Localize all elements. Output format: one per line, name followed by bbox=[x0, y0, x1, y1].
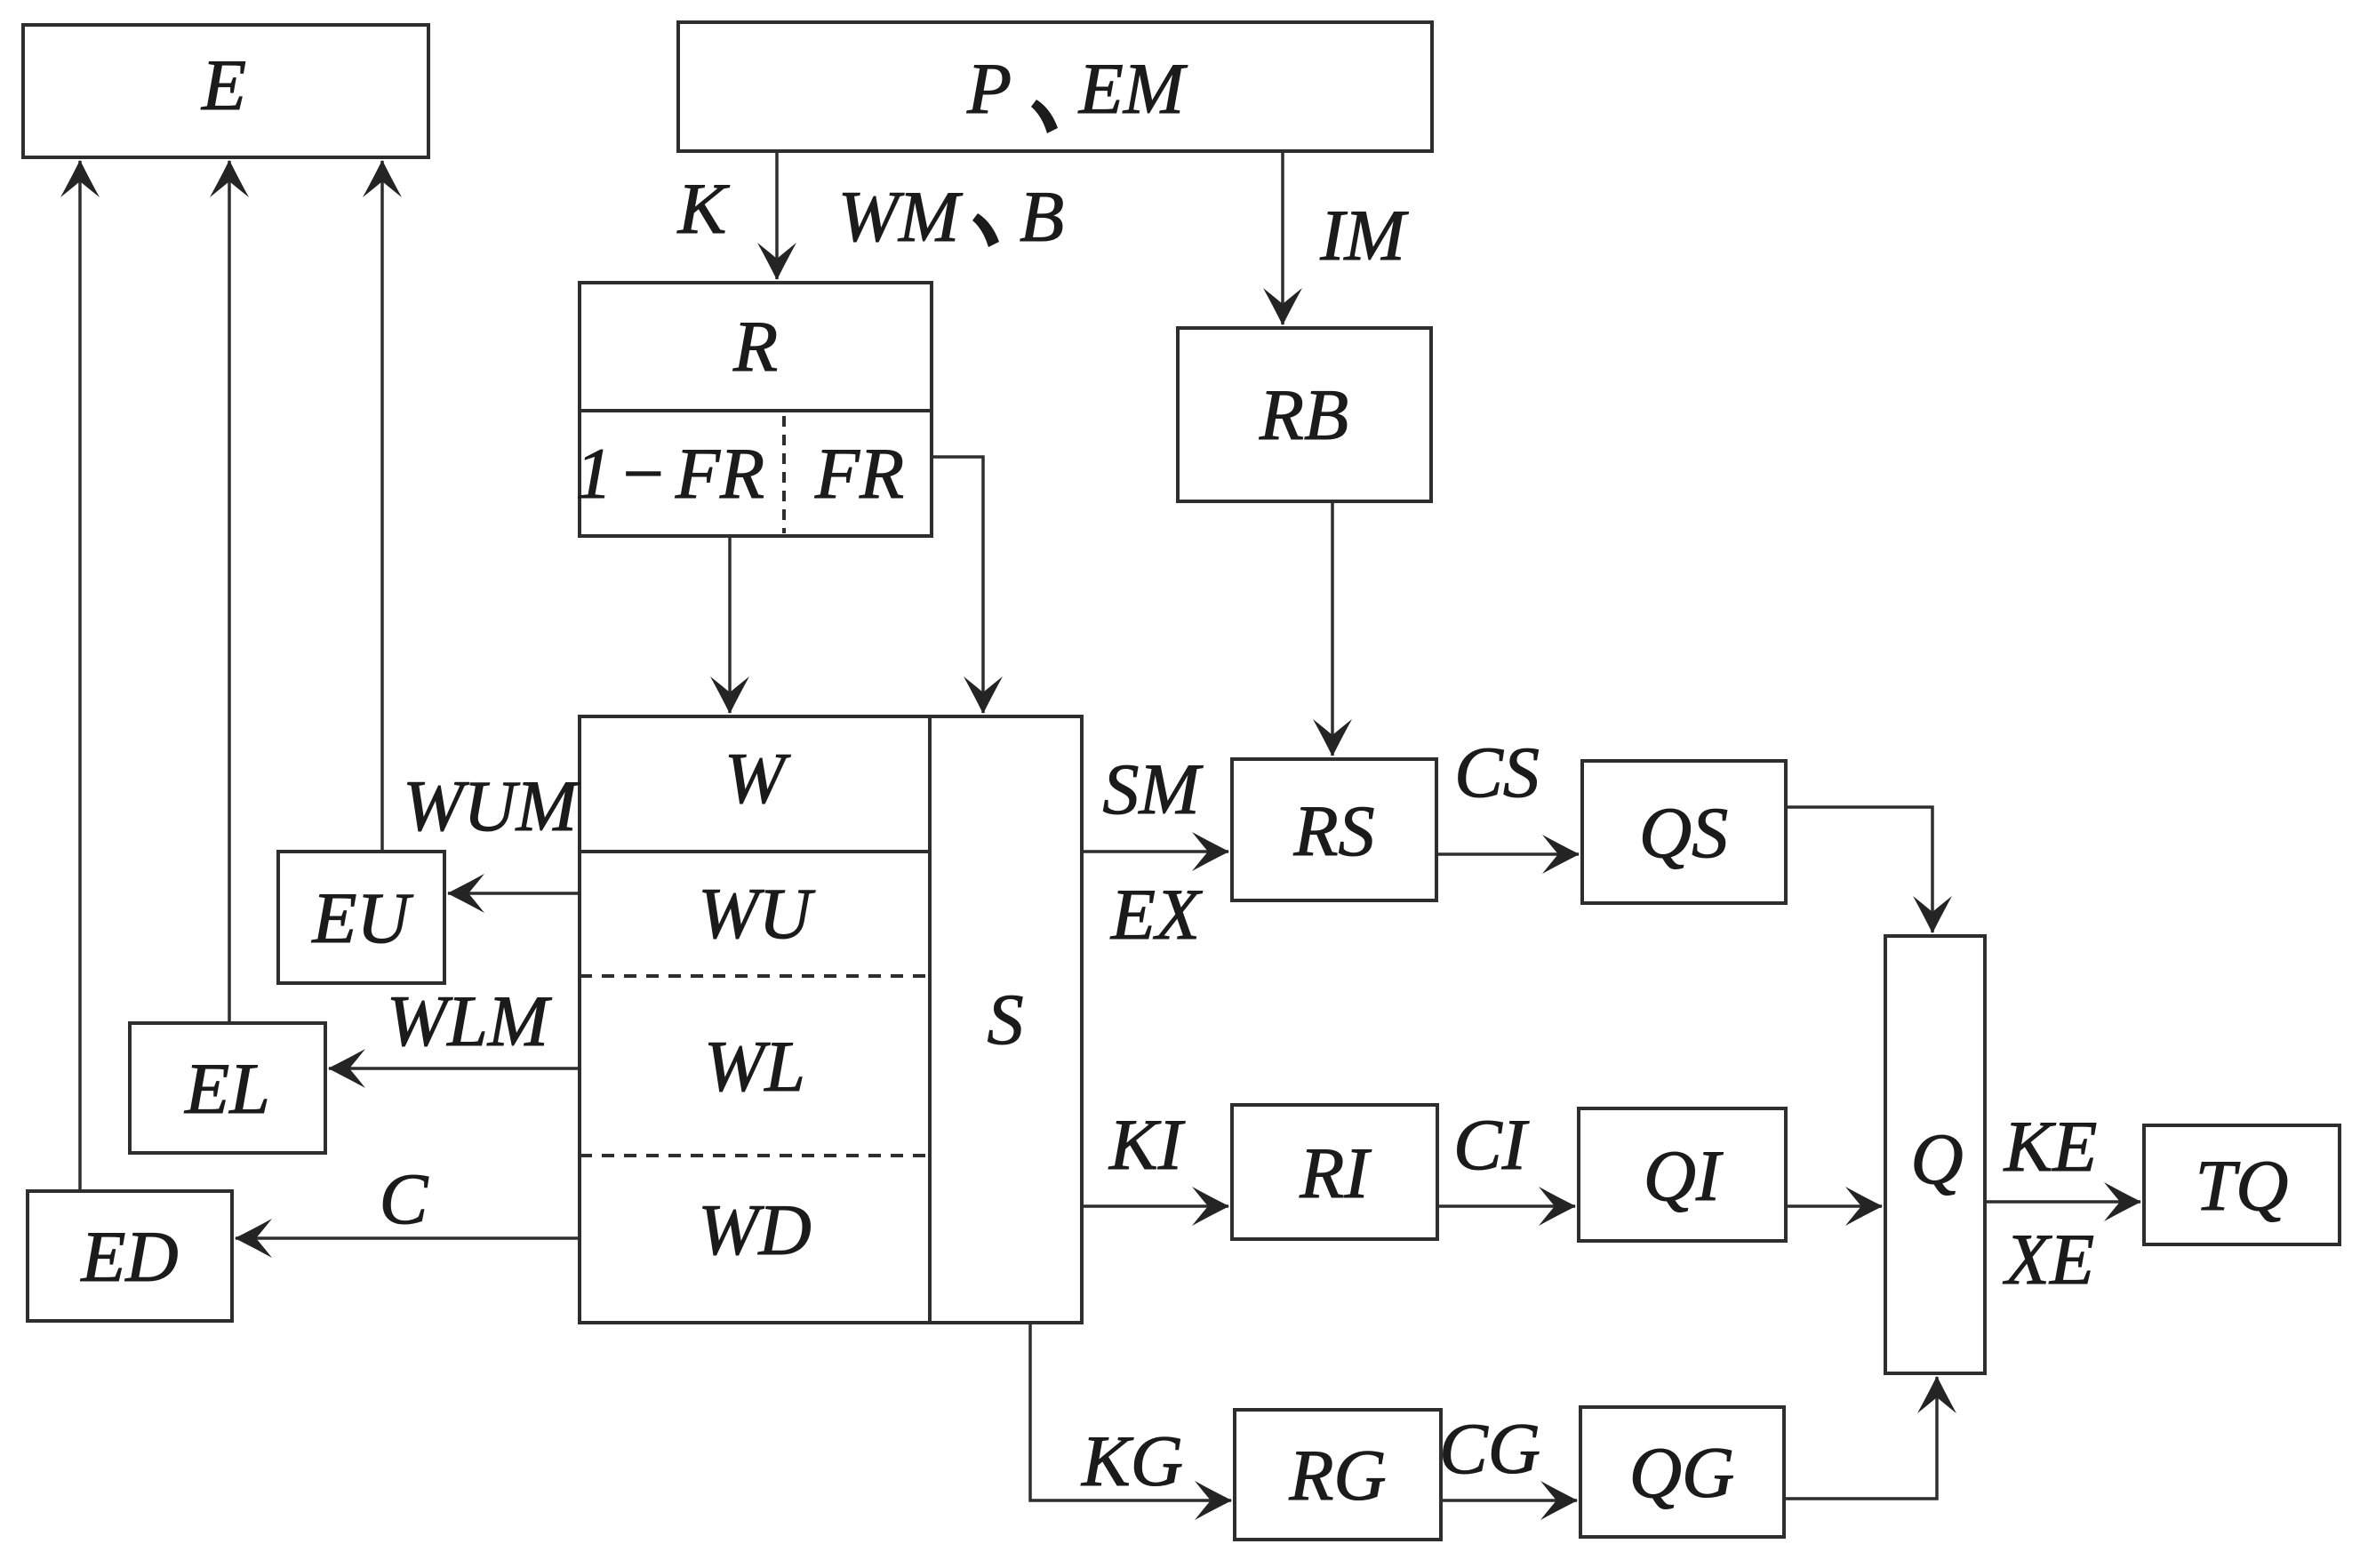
svg-text:1: 1 bbox=[576, 433, 612, 514]
box R with FR split bbox=[576, 283, 932, 536]
box Q bbox=[1885, 936, 1985, 1373]
wire RB to RS bbox=[1331, 501, 1334, 756]
svg-text:EL: EL bbox=[184, 1048, 270, 1129]
svg-text:KG: KG bbox=[1081, 1420, 1183, 1501]
box RS bbox=[1232, 759, 1436, 900]
wire RS to QS bbox=[1436, 732, 1579, 854]
svg-text:WUM: WUM bbox=[403, 765, 581, 846]
wire P,EM to RB bbox=[1283, 151, 1409, 324]
svg-text:QS: QS bbox=[1639, 792, 1728, 873]
svg-text:QI: QI bbox=[1644, 1135, 1724, 1216]
wire QI to Q bbox=[1786, 1204, 1882, 1208]
box RI bbox=[1232, 1105, 1437, 1239]
svg-text:WLM: WLM bbox=[387, 980, 553, 1061]
svg-text:TQ: TQ bbox=[2196, 1145, 2289, 1226]
svg-text:RG: RG bbox=[1288, 1435, 1386, 1516]
box QI bbox=[1579, 1108, 1786, 1241]
box EU bbox=[278, 852, 444, 983]
wire S to RS bbox=[1082, 748, 1228, 955]
svg-text:WD: WD bbox=[698, 1189, 812, 1270]
svg-text:ED: ED bbox=[80, 1216, 178, 1297]
svg-text:FR: FR bbox=[675, 433, 764, 514]
svg-text:RS: RS bbox=[1292, 790, 1374, 871]
svg-text:CG: CG bbox=[1439, 1408, 1540, 1489]
box TQ bbox=[2144, 1125, 2340, 1244]
svg-text:RI: RI bbox=[1299, 1132, 1372, 1213]
wire ED to E bbox=[78, 161, 82, 1191]
wire P,EM to R bbox=[677, 151, 1064, 279]
wire Q to TQ bbox=[1985, 1106, 2140, 1300]
wire S to RG bbox=[1030, 1323, 1231, 1501]
svg-text:KI: KI bbox=[1108, 1104, 1186, 1185]
wire FR to S bbox=[932, 457, 983, 713]
svg-text:IM: IM bbox=[1319, 195, 1409, 276]
wire S to RI bbox=[1082, 1104, 1228, 1206]
svg-text:W: W bbox=[724, 738, 791, 819]
svg-text:Q: Q bbox=[1910, 1118, 1963, 1199]
box RB bbox=[1178, 328, 1431, 501]
box EL bbox=[130, 1023, 325, 1153]
wire W to ED bbox=[236, 1158, 580, 1239]
svg-text:WU: WU bbox=[698, 873, 815, 954]
svg-text:RB: RB bbox=[1259, 374, 1348, 455]
box RG bbox=[1235, 1410, 1441, 1540]
box W/S tank bbox=[580, 716, 1082, 1323]
box ED bbox=[28, 1191, 232, 1321]
svg-text:B: B bbox=[1020, 176, 1064, 257]
svg-text:CS: CS bbox=[1454, 732, 1540, 812]
wire EU to E bbox=[380, 161, 384, 852]
box QG bbox=[1580, 1407, 1784, 1537]
svg-text:S: S bbox=[988, 979, 1024, 1060]
box E bbox=[23, 25, 428, 157]
svg-text:−: − bbox=[618, 433, 667, 514]
wire W to EL bbox=[329, 980, 580, 1068]
svg-text:EX: EX bbox=[1110, 874, 1203, 955]
svg-text:CI: CI bbox=[1453, 1104, 1530, 1185]
svg-text:C: C bbox=[380, 1158, 429, 1239]
box QS bbox=[1582, 761, 1786, 903]
box P,EM bbox=[678, 22, 1432, 151]
wire R to W bbox=[728, 536, 732, 713]
svg-text:R: R bbox=[732, 306, 778, 387]
svg-text:K: K bbox=[677, 168, 731, 249]
svg-text:XE: XE bbox=[2003, 1219, 2094, 1300]
svg-text:P: P bbox=[966, 48, 1012, 129]
wire EL to E bbox=[228, 161, 231, 1023]
svg-text:EU: EU bbox=[311, 877, 413, 958]
wire RI to QI bbox=[1437, 1104, 1575, 1206]
wire RG to QG bbox=[1439, 1408, 1577, 1500]
wire W to EU bbox=[403, 765, 581, 893]
svg-text:WM: WM bbox=[838, 176, 964, 257]
svg-text:QG: QG bbox=[1629, 1432, 1734, 1513]
svg-text:FR: FR bbox=[814, 433, 904, 514]
svg-text:E: E bbox=[201, 44, 246, 125]
svg-text:KE: KE bbox=[2004, 1106, 2098, 1187]
wire QG to Q bbox=[1784, 1377, 1937, 1499]
svg-text:EM: EM bbox=[1078, 48, 1188, 129]
wire QS to Q bbox=[1786, 807, 1932, 932]
svg-text:SM: SM bbox=[1102, 748, 1204, 829]
svg-text:WL: WL bbox=[704, 1026, 805, 1107]
